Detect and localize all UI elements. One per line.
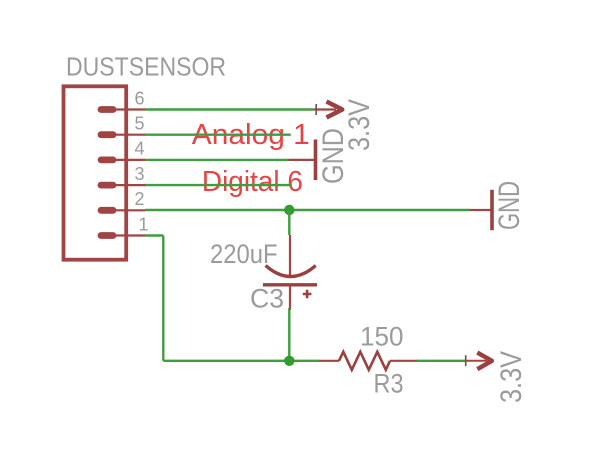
svg-text:DUSTSENSOR: DUSTSENSOR	[66, 52, 226, 82]
pin 4	[101, 139, 145, 160]
svg-text:Digital 6: Digital 6	[202, 166, 303, 198]
svg-text:6: 6	[135, 88, 145, 108]
node junction bottom	[284, 356, 294, 366]
node junction top	[284, 205, 294, 215]
wire pin2 to GND right	[145, 209, 470, 211]
wire pin6 to 3.3V arrow	[145, 108, 314, 110]
wire pin1 vertical	[162, 236, 164, 361]
pin 1	[101, 214, 149, 235]
svg-text:3.3V: 3.3V	[495, 351, 528, 403]
supply 3.3V top arrow	[314, 102, 343, 118]
wire pin5 Analog net	[145, 133, 291, 135]
svg-text:2: 2	[135, 189, 145, 209]
connector J1 DUSTSENSOR body	[64, 86, 127, 259]
pin 3	[101, 164, 145, 185]
svg-text:150: 150	[360, 322, 404, 352]
svg-text:4: 4	[135, 139, 145, 159]
wire pin3 Digital net	[145, 184, 292, 186]
ground GND right	[470, 190, 493, 230]
svg-text:220uF: 220uF	[210, 239, 278, 269]
svg-text:1: 1	[139, 214, 149, 234]
svg-text:C3: C3	[250, 284, 284, 314]
pin 2	[101, 189, 145, 210]
wire pin1 horizontal	[145, 234, 163, 236]
resistor R3	[320, 352, 417, 370]
svg-text:GND: GND	[493, 181, 526, 230]
wire resistor to 3.3V arrow	[417, 360, 467, 362]
capacitor C3	[263, 235, 317, 310]
wire capacitor to junction bottom	[288, 308, 290, 361]
svg-text:GND: GND	[317, 128, 350, 184]
wire bottom horizontal	[163, 360, 319, 362]
ground GND mid	[289, 140, 316, 181]
svg-text:5: 5	[135, 114, 145, 134]
svg-text:3: 3	[135, 164, 145, 184]
supply 3.3V bottom arrow	[466, 353, 492, 370]
svg-text:R3: R3	[374, 369, 404, 399]
wire pin4 to GND mid	[145, 159, 289, 161]
wire junction top to capacitor	[288, 210, 290, 235]
pin 5	[101, 114, 145, 135]
pin 6	[101, 88, 145, 109]
